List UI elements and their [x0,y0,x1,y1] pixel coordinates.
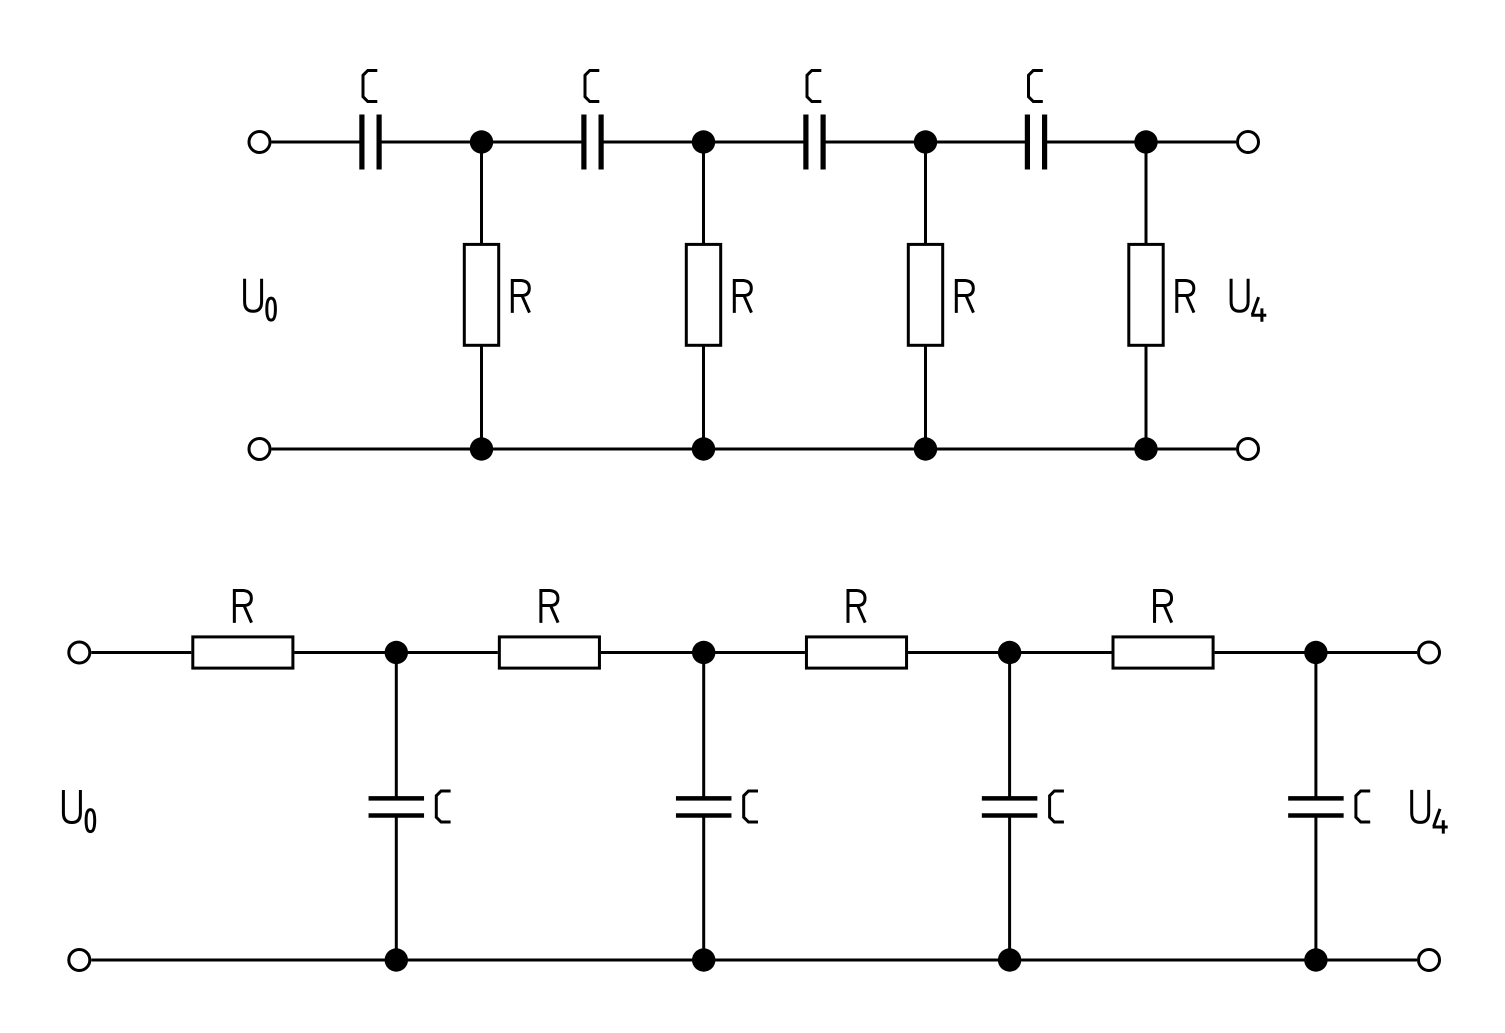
input terminal (top circuit, lower left port) [249,439,270,460]
node M4 (bottom rail junction 4) [1134,437,1157,460]
wire top rail to capacitor C3 [704,141,806,144]
node N1 (top rail junction 1) [470,130,493,153]
label R (resistor R3) [956,281,973,313]
resistor R1 (shunt) [464,244,498,345]
node P4 (top rail junction 4, bottom circuit) [1304,641,1327,664]
capacitor C5 (shunt) [369,798,425,815]
bottom rail wire (top circuit) [272,448,1237,451]
node Q1 (bottom rail junction 1, bottom circuit) [385,948,408,971]
label R (resistor R4) [1177,281,1194,313]
resistor R3 (shunt) [908,244,942,345]
resistor R7 (series) [806,637,906,668]
wire top rail node N4 to output terminal [1146,141,1236,144]
node M3 (bottom rail junction 3) [914,437,937,460]
wire resistor R3 to bottom node M3 [924,345,927,450]
wire node P2 to capacitor C6 [702,653,705,798]
label R (resistor R5) [234,591,251,623]
label U4 (output voltage, top circuit) [1231,279,1266,322]
output terminal (top circuit, lower right port) [1238,439,1259,460]
label C (capacitor C1) [363,71,377,102]
wire top rail to resistor R8 [1010,651,1112,654]
wire node N3 to resistor R3 [924,142,927,245]
wire capacitor C7 to node Q3 [1008,817,1011,961]
resistor R5 (series) [193,637,293,668]
label C (capacitor C5) [436,791,450,822]
input terminal (top circuit, upper left port) [249,132,270,153]
label R (resistor R7) [848,591,865,623]
node P2 (top rail junction 2, bottom circuit) [692,641,715,664]
capacitor C6 (shunt) [676,798,732,815]
bottom rail wire (bottom circuit) [91,959,1417,962]
node P3 (top rail junction 3, bottom circuit) [998,641,1021,664]
wire top rail to resistor R7 [704,651,805,654]
capacitor C2 [584,115,601,170]
wire top rail to capacitor C4 [926,141,1028,144]
wire top rail node P4 to output terminal [1316,651,1417,654]
label U4 (output voltage, bottom circuit) [1412,790,1448,834]
wire resistor R1 to bottom node M1 [480,345,483,450]
output terminal (bottom circuit, lower right port) [1419,950,1440,971]
wire top rail to capacitor C1 [272,141,362,144]
label C (capacitor C8) [1356,791,1370,822]
wire node N1 to resistor R1 [480,142,483,245]
node Q3 (bottom rail junction 3, bottom circuit) [998,948,1021,971]
label C (capacitor C4) [1029,71,1043,102]
wire resistor R8 to node P4 [1215,651,1316,654]
wire resistor R5 to node P1 [294,651,396,654]
resistor R6 (series) [499,637,599,668]
label C (capacitor C2) [585,71,599,102]
wire top rail to resistor R6 [396,651,498,654]
resistor R8 (series) [1113,637,1213,668]
wire node P3 to capacitor C7 [1008,653,1011,798]
wire capacitor C6 to node Q2 [702,817,705,961]
label U0 (input voltage, bottom circuit) [63,790,94,832]
capacitor C1 [362,115,379,170]
node Q4 (bottom rail junction 4, bottom circuit) [1304,948,1327,971]
label U0 (input voltage, top circuit) [245,279,276,320]
resistor R4 (shunt) [1129,244,1163,345]
label R (resistor R1) [512,281,529,313]
node P1 (top rail junction 1, bottom circuit) [385,641,408,664]
wire capacitor C3 to node N3 [823,141,925,144]
wire node P4 to capacitor C8 [1314,653,1317,798]
node N2 (top rail junction 2) [692,130,715,153]
node M2 (bottom rail junction 2) [692,437,715,460]
wire resistor R7 to node P3 [908,651,1010,654]
node M1 (bottom rail junction 1) [470,437,493,460]
wire node P1 to capacitor C5 [395,653,398,798]
input terminal (bottom circuit, upper left port) [69,642,90,663]
capacitor C8 (shunt) [1288,798,1344,815]
output terminal (top circuit, upper right port) [1238,132,1259,153]
capacitor C4 [1027,115,1044,170]
wire resistor R4 to bottom node M4 [1145,345,1148,450]
wire resistor R6 to node P2 [601,651,704,654]
node Q2 (bottom rail junction 2, bottom circuit) [692,948,715,971]
wire capacitor C4 to node N4 [1045,141,1146,144]
input terminal (bottom circuit, lower left port) [69,950,90,971]
label R (resistor R6) [541,591,558,623]
wire resistor R2 to bottom node M2 [702,345,705,450]
wire top rail to resistor R5 [91,651,191,654]
label C (capacitor C6) [744,791,758,822]
label R (resistor R8) [1155,591,1172,623]
output terminal (bottom circuit, upper right port) [1419,642,1440,663]
resistor R2 (shunt) [686,244,720,345]
wire capacitor C2 to node N2 [601,141,703,144]
wire capacitor C1 to node N1 [379,141,481,144]
capacitor C3 [806,115,823,170]
wire capacitor C5 to node Q1 [395,817,398,961]
wire node N2 to resistor R2 [702,142,705,245]
node N4 (top rail junction 4) [1134,130,1157,153]
capacitor C7 (shunt) [982,798,1038,815]
label C (capacitor C3) [807,71,821,102]
label R (resistor R2) [734,281,751,313]
wire node N4 to resistor R4 [1145,142,1148,245]
node N3 (top rail junction 3) [914,130,937,153]
wire capacitor C8 to node Q4 [1314,817,1317,961]
wire top rail to capacitor C2 [482,141,584,144]
label C (capacitor C7) [1050,791,1064,822]
